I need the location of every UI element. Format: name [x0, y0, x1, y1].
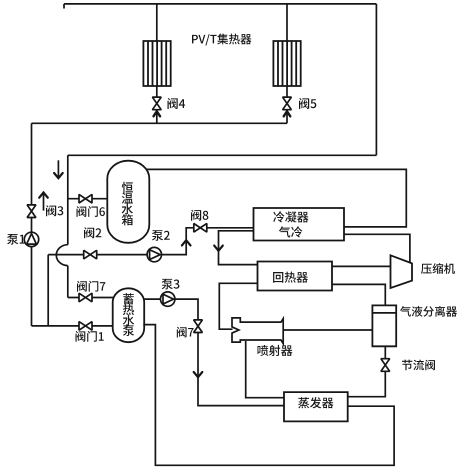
wire: right edge of PV/T outer loop: [375, 4, 377, 155]
label 蒸发器: [298, 397, 333, 408]
tank 蓄热水泵 (heat-storage water tank): [113, 288, 145, 342]
label 阀3: [46, 205, 63, 216]
wire: valve 7 down to evaporator: [198, 333, 284, 406]
valve 阀3: [27, 205, 36, 218]
label 阀8: [191, 210, 208, 221]
label PV/T集热器: [192, 34, 252, 46]
valve 阀门7: [79, 293, 92, 302]
arrow: upward flow beside valve 3: [43, 193, 45, 211]
label 阀门7: [77, 281, 105, 292]
label 泵1: [7, 234, 25, 245]
condenser box 冷凝器/气冷: [254, 208, 345, 241]
wire: valve 2 / pump 2 line: [48, 254, 147, 256]
wire: condenser refrigerant out to recuperator: [219, 231, 258, 265]
label 阀2: [84, 227, 101, 238]
wire: pump 1 down to storage-tank line: [31, 247, 33, 326]
ejector 喷射器: [232, 318, 283, 344]
wire: recuperator lower-left to ejector motive inlet: [219, 283, 257, 329]
wire: storage tank lower inlet (valve-1 line): [32, 325, 114, 327]
wire: valve 3 to pump 1: [31, 218, 33, 233]
gas-liquid separator 气液分离器: [372, 305, 396, 346]
label 恒温水箱 (vertical): [122, 182, 133, 226]
wire: branch corner x48 (valve-2 line down to valve-1 line): [47, 255, 49, 326]
wire: riser to PV/T collector 2: [286, 4, 288, 41]
PV/T collector 1 (hatched panel): [143, 41, 170, 86]
pump 泵1: [24, 232, 38, 246]
tank 恒温水箱 (constant-temperature water tank): [107, 161, 149, 243]
arrow: down-flow valve 7 to evaporator: [194, 372, 203, 377]
valve 阀门1: [79, 322, 92, 331]
wire: pump 3 to valve 7 riser: [175, 299, 198, 320]
compressor 压缩机 (trapezoid): [391, 255, 413, 288]
pump 泵2: [147, 247, 161, 261]
label 阀门6: [77, 206, 105, 217]
label 阀门1: [76, 331, 104, 342]
wire: tank 2 to pump 3: [144, 298, 161, 300]
wire: throttle valve to evaporator: [348, 371, 386, 396]
wire: separator to throttle valve: [384, 346, 386, 358]
wire: PV/T loop inner-left vertical with crossover hop: [67, 155, 69, 297]
wire: pump 2 to valve 8 riser: [162, 228, 194, 255]
evaporator box 蒸发器: [284, 392, 348, 421]
wire: evaporator brine return loop (bottom): [143, 325, 394, 466]
label 阀4: [168, 98, 186, 109]
valve 阀8: [194, 224, 207, 233]
wire: tank 1 inlet line: [68, 198, 109, 200]
arrow: downward flow beside inner-left vertical: [57, 160, 59, 178]
valve 阀5: [283, 97, 292, 110]
wire: storage tank upper inlet (valve-7 line): [68, 297, 115, 299]
PV/T collector 2 (hatched panel): [273, 41, 300, 86]
wire: recuperator to compressor suction: [332, 265, 391, 267]
label 节流阀: [402, 360, 435, 371]
label 冷凝器: [273, 211, 308, 222]
wire: collector return header: [32, 122, 288, 124]
wire: collector 1 to valve 4: [156, 86, 158, 97]
label 气冷: [279, 226, 302, 237]
wire+arrow: header up into valve 5: [286, 112, 288, 124]
label 压缩机: [421, 263, 455, 274]
wire: tank 1 outlet to condenser water-return: [146, 169, 406, 227]
label 喷射器: [258, 345, 293, 356]
arrow: up-flow on valve 8 riser: [182, 240, 191, 245]
wire: ejector suction from evaporator: [246, 341, 284, 398]
label 气液分离器: [400, 306, 457, 317]
valve 阀7: [194, 320, 203, 333]
label 蓄热水泵 (vertical): [123, 293, 134, 336]
label 阀7: [177, 327, 194, 338]
wire: collector 2 to valve 5: [286, 86, 288, 97]
valve 阀门6: [79, 194, 92, 203]
arrow: down-flow condenser to recuperator: [214, 246, 223, 251]
wire: ejector outlet to separator: [283, 329, 372, 331]
label 回热器: [273, 272, 308, 283]
wire: condenser to compressor discharge side: [344, 234, 410, 263]
wire: PV/T loop bottom line: [68, 154, 377, 156]
throttle valve 节流阀: [381, 359, 390, 372]
wire: left main down-comer: [31, 123, 33, 205]
valve 阀2: [84, 250, 97, 259]
wire: top supply header of PV/T loop: [64, 4, 376, 9]
pump 泵3: [161, 292, 175, 306]
wire: riser to PV/T collector 1: [156, 4, 158, 41]
label 阀5: [299, 98, 316, 109]
label 泵3: [162, 279, 180, 290]
wire+arrow: header up into valve 4: [156, 112, 158, 124]
recuperator box 回热器: [258, 262, 333, 291]
valve 阀4: [152, 97, 161, 110]
label 泵2: [152, 230, 170, 241]
wire: recuperator to gas-liquid separator: [332, 284, 385, 305]
wire: valve 8 to condenser: [207, 227, 254, 229]
